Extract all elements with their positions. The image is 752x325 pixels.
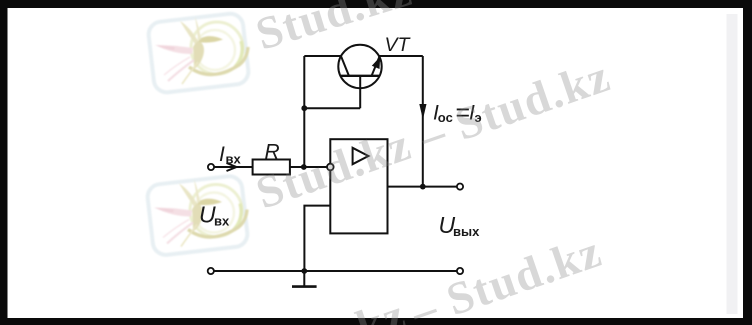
wire noninverting input <box>304 206 330 271</box>
junction input node <box>301 164 307 170</box>
wire top-right horizontal <box>379 55 423 57</box>
transistor base bar <box>341 75 380 77</box>
terminal bottom-right <box>457 268 463 274</box>
op-amp inverting input circle <box>327 164 334 171</box>
labels <box>199 34 482 239</box>
wire bottom rail <box>214 270 457 272</box>
circuit <box>214 56 457 271</box>
terminal bottom-left <box>208 268 214 274</box>
wire resistor to opamp <box>290 166 327 168</box>
watermark logo 2 <box>146 175 248 256</box>
wire top-left horizontal <box>304 55 341 57</box>
svg-text:I: I <box>219 143 225 166</box>
wire right vertical <box>422 56 424 187</box>
frame left bar <box>0 0 8 325</box>
op-amp U1 <box>330 139 387 233</box>
wire input <box>214 166 253 168</box>
watermark text row A <box>250 0 617 325</box>
transistor base lead <box>359 76 361 108</box>
watermark logo 1 <box>147 12 249 93</box>
junction base node <box>301 105 307 111</box>
frame bottom bar <box>0 318 752 325</box>
op-amp triangle symbol <box>353 148 369 164</box>
junction output node <box>420 184 426 190</box>
transistor emitter lead <box>372 57 380 76</box>
terminal output <box>457 184 463 190</box>
wire output <box>388 186 458 188</box>
wire left vertical <box>303 56 305 167</box>
arrow feedback current <box>419 104 426 120</box>
svg-text:VT: VT <box>385 34 412 56</box>
scrollbar strip <box>727 14 738 314</box>
watermark text on bars <box>250 0 608 325</box>
transistor emitter arrowhead <box>372 57 380 69</box>
transistor collector lead <box>341 57 349 76</box>
svg-text:вх: вх <box>226 152 242 167</box>
svg-text:вх: вх <box>214 214 230 229</box>
frame right bar <box>743 0 752 325</box>
arrow input current <box>227 163 237 171</box>
wire base horizontal <box>304 107 360 109</box>
ground <box>303 271 305 287</box>
junction ground node <box>301 268 307 274</box>
terminal input <box>208 164 214 170</box>
frame top bar <box>0 0 752 8</box>
transistor VT <box>338 45 381 88</box>
svg-text:вых: вых <box>453 224 480 239</box>
resistor R <box>253 160 290 175</box>
